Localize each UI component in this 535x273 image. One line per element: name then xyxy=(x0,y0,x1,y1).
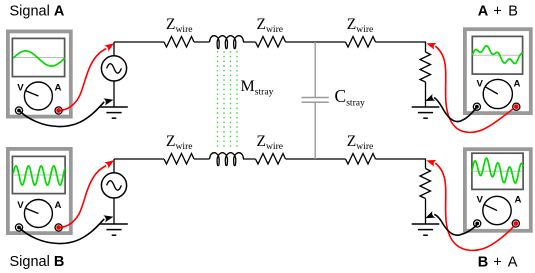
top-right meter dial xyxy=(483,79,512,108)
svg-text:V: V xyxy=(17,200,24,211)
label Zwire bottom-left xyxy=(166,133,193,152)
oscilloscope/meter bottom-left body xyxy=(8,149,71,233)
black probe wire (B+A scope to ground) xyxy=(434,214,477,235)
svg-text:A+B: A+B xyxy=(478,4,518,20)
resistor Zwire bottom-right xyxy=(346,154,376,165)
svg-text:A: A xyxy=(55,200,62,211)
black arrowhead at source A ground wire xyxy=(103,96,114,105)
red probe wire (signal A scope to line) xyxy=(59,49,106,111)
oscilloscope/meter top-left body xyxy=(8,31,71,116)
bottom-right V and A labels xyxy=(477,195,522,206)
AC source A xyxy=(101,56,126,81)
red probe wire (A+B scope to line) xyxy=(435,46,513,132)
red arrowhead at node B+A xyxy=(425,157,436,167)
bottom-left red terminal xyxy=(55,224,62,231)
black probe wire (signal A scope to ground) xyxy=(20,102,105,127)
top-left meter dial xyxy=(24,82,52,110)
black arrowhead at bottom-right ground wire xyxy=(424,211,436,222)
inductor bottom (coupled) xyxy=(210,153,256,166)
top-left waveform trace xyxy=(13,51,64,66)
bottom-right meter dial xyxy=(483,196,511,224)
resistor Zwire top-left xyxy=(164,37,194,48)
bottom-right red terminal xyxy=(512,220,519,227)
red arrowhead at node A xyxy=(104,40,116,52)
source B vertical wire xyxy=(113,159,115,224)
bottom-left black terminal xyxy=(15,224,22,231)
svg-text:A: A xyxy=(55,83,62,94)
svg-text:V: V xyxy=(17,83,24,94)
label B + A xyxy=(478,255,518,271)
bottom wire rail (signal B line) xyxy=(114,159,426,169)
bottom-right black terminal xyxy=(474,220,481,227)
label Cstray xyxy=(335,86,366,109)
oscilloscope/meter bottom-right body xyxy=(465,149,531,231)
resistor Zwire top-middle xyxy=(256,37,286,48)
svg-text:Signal A: Signal A xyxy=(10,4,65,20)
resistor Zwire bottom-middle xyxy=(256,154,286,165)
resistor Zwire top-right xyxy=(346,37,376,48)
svg-text:V: V xyxy=(477,195,484,206)
bottom-left V and A labels xyxy=(17,200,61,211)
label Zwire bottom-right xyxy=(347,133,374,152)
source A vertical wire xyxy=(113,42,115,107)
top wire rail (signal A line) xyxy=(114,42,426,52)
ground (bottom-right load) xyxy=(412,224,440,235)
top-right V and A labels xyxy=(477,79,521,90)
svg-text:A: A xyxy=(515,195,522,206)
resistor Zwire bottom-left xyxy=(164,154,194,165)
bottom-left screen xyxy=(12,156,65,193)
red arrowhead at node B xyxy=(104,157,116,169)
svg-text:A: A xyxy=(514,79,521,90)
label Zwire top-middle xyxy=(257,16,284,35)
load resistor bottom-right xyxy=(420,169,431,225)
black probe wire (signal B scope to ground) xyxy=(20,219,105,244)
svg-text:V: V xyxy=(477,79,484,90)
black arrowhead at top-right ground wire xyxy=(424,94,436,105)
label Signal B xyxy=(10,254,65,270)
inductor top (coupled) xyxy=(210,36,256,49)
bottom-left meter dial xyxy=(24,200,52,228)
label A + B xyxy=(478,4,518,20)
label Signal A xyxy=(10,4,65,20)
svg-text:B+A: B+A xyxy=(478,255,518,271)
mutual inductance Mstray coupling (dotted lines) xyxy=(218,51,238,149)
AC source B xyxy=(101,173,126,198)
red probe wire (B+A scope to line) xyxy=(435,163,513,250)
ground (source A) xyxy=(100,107,128,118)
load resistor top-right xyxy=(420,52,431,107)
top-left V and A labels xyxy=(17,83,61,94)
bottom-right screen xyxy=(472,153,523,189)
top-right black terminal xyxy=(473,103,480,110)
label Zwire top-right xyxy=(347,16,374,35)
label Mstray xyxy=(241,78,274,98)
ground (source B) xyxy=(100,224,128,235)
bottom-left waveform trace xyxy=(13,166,65,185)
capacitor Cstray xyxy=(302,42,329,159)
label Zwire top-left xyxy=(166,16,193,35)
top-left red terminal xyxy=(55,107,62,114)
black probe wire (A+B scope to ground) xyxy=(434,98,477,122)
top-left screen xyxy=(12,38,64,76)
black arrowhead at source B ground wire xyxy=(103,213,114,222)
top-right waveform trace xyxy=(472,46,522,64)
red probe wire (signal B scope to line) xyxy=(59,166,106,228)
top-right red terminal xyxy=(513,103,520,110)
bottom-right waveform trace xyxy=(472,158,523,183)
red arrowhead at node A+B xyxy=(425,40,436,50)
top-right screen xyxy=(472,36,522,74)
oscilloscope/meter top-right body xyxy=(465,29,531,113)
svg-text:Signal B: Signal B xyxy=(10,254,65,270)
top-left black terminal xyxy=(15,107,22,114)
ground (top-right load) xyxy=(412,107,440,118)
label Zwire bottom-middle xyxy=(257,133,284,152)
